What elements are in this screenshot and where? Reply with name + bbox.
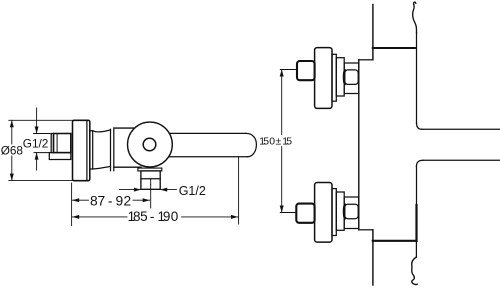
svg-text:G1/2: G1/2 (23, 136, 49, 150)
svg-text:185-190: 185-190 (128, 209, 179, 224)
svg-text:150±15: 150±15 (259, 137, 292, 148)
svg-text:Ø68: Ø68 (1, 144, 24, 158)
svg-text:G1/2: G1/2 (179, 184, 206, 198)
svg-text:87-92: 87-92 (90, 194, 131, 209)
